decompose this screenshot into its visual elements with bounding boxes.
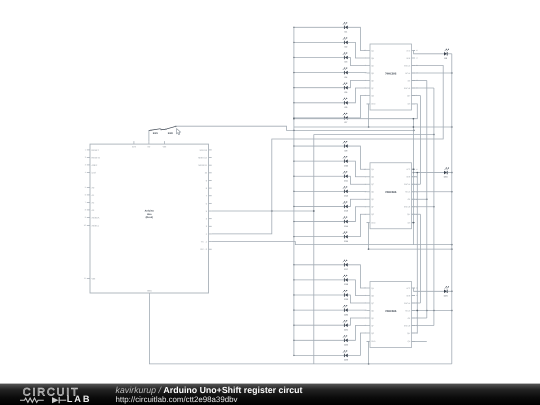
svg-text:QA: QA — [371, 49, 374, 52]
svg-text:QC: QC — [371, 183, 374, 186]
svg-text:3: 3 — [206, 225, 208, 228]
svg-text:D20: D20 — [344, 313, 349, 316]
svg-text:QC: QC — [371, 64, 374, 67]
wire U2 OE row to rail — [412, 191, 452, 193]
svg-text:SER: SER — [406, 57, 411, 60]
Arduino pin SCK/13 — [209, 149, 212, 151]
wire bus to LED D19 — [294, 294, 345, 296]
svg-text:11: 11 — [84, 277, 86, 280]
wire LED D15 to U2 — [348, 214, 367, 236]
wire U1 OE row to rail — [412, 72, 452, 74]
LED D4 — [343, 68, 348, 79]
LED D13 — [343, 202, 349, 213]
svg-text:RCLK: RCLK — [405, 309, 411, 312]
wire LED D17 to U3 — [348, 265, 367, 288]
U3 pin QH — [412, 340, 416, 342]
junction on bus — [293, 117, 294, 118]
svg-text:3V3: 3V3 — [132, 145, 137, 148]
wire U2 GND drop — [367, 223, 369, 249]
svg-text:ioref: ioref — [92, 171, 97, 174]
junction — [413, 222, 415, 224]
svg-text:74HC595: 74HC595 — [385, 72, 397, 75]
svg-text:kavirkurup / Arduino Uno+Shift: kavirkurup / Arduino Uno+Shift register … — [116, 385, 303, 395]
junction on bus — [293, 27, 294, 28]
junction — [433, 206, 435, 208]
Arduino pin TX&#8594;1 — [209, 241, 212, 243]
junction — [368, 363, 370, 365]
junction — [426, 198, 428, 200]
svg-text:QB: QB — [371, 176, 374, 179]
svg-text:QC: QC — [371, 302, 374, 305]
svg-text:SCK/13: SCK/13 — [199, 149, 207, 152]
wire U1 GND-R jog to bus line A1 — [294, 104, 417, 119]
wire bus to LED D3 — [294, 57, 345, 59]
svg-text:VCC: VCC — [406, 168, 411, 171]
U1 pin QD — [367, 72, 371, 74]
junction — [426, 310, 428, 312]
U2 pin SER — [412, 176, 416, 178]
LED D8 — [444, 49, 449, 60]
Arduino pin MOSI/11 — [209, 164, 212, 166]
svg-text:5V: 5V — [148, 145, 151, 148]
U3 pin QA — [367, 287, 371, 289]
wire between switches — [162, 128, 166, 130]
svg-text:5: 5 — [85, 186, 86, 189]
svg-text:QD: QD — [371, 72, 374, 75]
U3 pin VCC — [412, 287, 416, 289]
node LED supply bus (vertical) — [293, 27, 295, 355]
Arduino pin GND — [148, 293, 150, 296]
wire U2 GND-R to v413 — [412, 222, 414, 224]
Arduino pin 10 — [209, 172, 212, 174]
junction on bus — [293, 279, 294, 280]
vertical bus RCLK — [426, 81, 428, 319]
vertical chain QH'U1-SER U2 — [419, 96, 421, 185]
junction — [416, 310, 418, 312]
svg-text:2: 2 — [206, 233, 208, 236]
svg-text:RX←0: RX←0 — [201, 248, 208, 251]
svg-text:A4/SDA: A4/SDA — [92, 216, 100, 219]
wire U2 VCC stub to v413 — [413, 168, 415, 170]
svg-text:RCLK: RCLK — [405, 72, 411, 75]
svg-text:D7: D7 — [345, 121, 349, 124]
U1 pin QH — [412, 103, 416, 105]
svg-text:QH': QH' — [407, 332, 411, 335]
junction on bus — [293, 176, 294, 177]
svg-text:OE: OE — [408, 198, 411, 201]
U3 pin SER — [412, 295, 416, 297]
wire LED to right rail — [447, 290, 451, 292]
U1 pin VCC — [412, 50, 416, 52]
svg-text:A2: A2 — [92, 201, 95, 204]
svg-text:2: 2 — [85, 156, 86, 159]
junction right rail — [451, 290, 453, 292]
svg-text:D2: D2 — [345, 46, 349, 49]
svg-text:10: 10 — [205, 172, 208, 175]
svg-text:16: 16 — [416, 168, 418, 171]
wire bus to LED D20 — [294, 309, 345, 311]
svg-text:QA: QA — [371, 168, 374, 171]
CircuitLab logo — [20, 386, 91, 403]
svg-text:8: 8 — [206, 187, 208, 190]
wire U3 VCC jog to LED row — [414, 288, 444, 291]
U3 pin QG — [367, 332, 371, 334]
junction on bus — [293, 42, 294, 43]
svg-text:D23: D23 — [344, 359, 349, 362]
LED D16 — [444, 168, 449, 179]
svg-text:D11: D11 — [344, 179, 349, 182]
U3 pin QE — [367, 317, 371, 319]
U2 pin QB — [367, 176, 371, 178]
U2 pin QH — [412, 222, 416, 224]
wire latch line over gap1 — [314, 134, 434, 136]
wire U2 pin2 tap to chain — [412, 183, 421, 185]
svg-text:QE: QE — [371, 317, 374, 320]
svg-text:QF: QF — [371, 324, 374, 327]
junction — [451, 191, 453, 193]
Arduino pin ioref — [87, 171, 90, 173]
svg-text:SW1: SW1 — [153, 132, 159, 135]
wire LED D12 to U2 — [348, 190, 367, 192]
wire bus to LED D12 — [294, 190, 345, 192]
svg-text:D4: D4 — [345, 76, 349, 79]
LED D7 — [343, 113, 348, 124]
junction — [451, 248, 453, 250]
junction — [368, 248, 370, 250]
junction on bus — [293, 191, 294, 192]
U3 pin QB — [367, 295, 371, 297]
svg-text:VCC: VCC — [406, 49, 411, 52]
junction — [413, 168, 415, 170]
junction — [413, 130, 415, 132]
svg-text:QF: QF — [371, 87, 374, 90]
wire bus to LED D7 — [294, 117, 345, 119]
U2 pin QG — [367, 213, 371, 215]
svg-text:1: 1 — [85, 149, 86, 152]
svg-text:D3: D3 — [345, 61, 349, 64]
U1 pin SRCLR — [412, 87, 416, 89]
svg-text:QE: QE — [371, 198, 374, 201]
svg-text:A0: A0 — [92, 186, 95, 189]
U2 pin RCLK — [412, 191, 416, 193]
svg-text:D18: D18 — [344, 283, 349, 286]
junction on bus — [293, 264, 294, 265]
Arduino pin 5 — [209, 210, 212, 212]
svg-text:3: 3 — [365, 309, 366, 312]
switch SW2 — [165, 126, 176, 135]
junction — [451, 72, 453, 74]
junction — [451, 244, 453, 246]
Arduino pin A5/SCL — [87, 224, 90, 226]
Arduino pin AREF — [87, 164, 90, 166]
svg-text:QE: QE — [371, 79, 374, 82]
svg-text:QD: QD — [371, 309, 374, 312]
svg-text:QG: QG — [371, 332, 374, 335]
LED D6 — [343, 98, 348, 109]
Arduino pin 3V3 — [133, 141, 135, 144]
wire switch to LED supply bus and v413 — [176, 126, 414, 130]
wire bus to LED D22 — [294, 339, 345, 341]
svg-text:OE: OE — [408, 317, 411, 320]
Arduino pin RESET2 — [87, 156, 90, 158]
Arduino pin 5V — [148, 141, 150, 144]
junction — [433, 310, 435, 312]
vertical chain v417 — [416, 173, 418, 334]
U1 pin QG — [367, 95, 371, 97]
LED D20 — [343, 305, 349, 316]
U2 pin VCC — [412, 168, 416, 170]
junction right rail — [451, 172, 453, 174]
U1 pin OE — [412, 80, 416, 82]
wire Arduino GND down to ground rail — [149, 296, 451, 364]
U2 pin GND — [367, 222, 371, 224]
svg-text:SW2: SW2 — [168, 132, 174, 135]
shift register U2 74HC595 — [370, 163, 412, 229]
wire LED D21 to U3 — [348, 318, 367, 325]
U3 SER stub — [412, 295, 416, 297]
svg-text:GND: GND — [371, 221, 376, 224]
LED D1 — [343, 23, 348, 34]
LED D14 — [343, 217, 349, 228]
svg-text:D21: D21 — [344, 328, 349, 331]
wire 5V pin up to switch — [148, 130, 150, 141]
wire LED D19 to U3 — [348, 295, 367, 303]
U2 pin QC — [367, 183, 371, 185]
Arduino pin 9 — [209, 179, 212, 181]
wire bus to LED D17 — [294, 264, 345, 266]
svg-text:A5/SCL: A5/SCL — [92, 224, 100, 227]
wire bus to LED D13 — [294, 205, 345, 207]
Arduino pin A0 — [87, 186, 90, 188]
svg-text:QH: QH — [407, 340, 410, 343]
junction on bus — [293, 145, 294, 146]
svg-text:QH: QH — [407, 103, 410, 106]
wire bus to LED D21 — [294, 324, 345, 326]
LED D2 — [343, 38, 348, 49]
Arduino pin A2 — [87, 201, 90, 203]
U3 pin GND — [367, 340, 371, 342]
junction on bus — [293, 57, 294, 58]
svg-text:D13: D13 — [344, 210, 349, 213]
svg-text:QG: QG — [371, 213, 374, 216]
wire U1 SRCLK tap — [412, 87, 434, 89]
svg-text:GND: GND — [371, 340, 376, 343]
wire U2 LED row — [413, 172, 444, 174]
LED D24 — [444, 287, 449, 298]
svg-text:QD: QD — [371, 191, 374, 194]
LED D12 — [343, 187, 349, 198]
svg-text:A1: A1 — [92, 194, 95, 197]
svg-text:SRCLR: SRCLR — [404, 324, 411, 327]
U2 pin QF — [367, 206, 371, 208]
svg-text:D8: D8 — [444, 57, 448, 60]
svg-text:SRCLK: SRCLK — [404, 302, 411, 305]
svg-text:QH': QH' — [407, 213, 411, 216]
Arduino pin RX&#8592;0 — [209, 248, 212, 250]
svg-text:5: 5 — [206, 210, 208, 213]
wire LED D22 to U3 — [348, 326, 367, 341]
wire LED D9 to U2 — [348, 146, 367, 169]
junction on bus — [293, 102, 294, 103]
svg-text:6: 6 — [85, 194, 86, 197]
Arduino pin VIN — [87, 277, 90, 279]
wire gap line B1 — [294, 126, 452, 128]
wire U3 RCLK tap — [412, 317, 427, 319]
svg-text:14: 14 — [416, 294, 418, 297]
Arduino pin 8 — [209, 187, 212, 189]
svg-text:4: 4 — [85, 171, 86, 174]
Arduino pin 4 — [209, 218, 212, 220]
junction — [368, 126, 370, 128]
svg-text:16: 16 — [416, 287, 418, 290]
U3 pin QD — [367, 310, 371, 312]
U3 pin QH' — [412, 332, 416, 334]
junction on bus — [293, 160, 294, 161]
junction on bus — [293, 87, 294, 88]
wire LED to right rail — [447, 53, 451, 55]
junction — [413, 172, 415, 174]
svg-text:RESET2: RESET2 — [92, 156, 101, 159]
vertical bus line B (mid) — [313, 135, 315, 364]
junction on bus — [293, 206, 294, 207]
wire bus to LED D6 — [294, 102, 345, 104]
svg-text:D1: D1 — [345, 31, 349, 34]
vertical bus SRCLK — [433, 88, 435, 326]
wire LED D13 to U2 — [348, 199, 367, 206]
svg-text:SER: SER — [406, 294, 411, 297]
svg-text:VIN: VIN — [92, 277, 96, 280]
vertical link v413 gap1 to gap2 — [412, 119, 414, 245]
svg-text:QB: QB — [371, 294, 374, 297]
junction on bus — [293, 294, 294, 295]
vertical right cathode rail — [451, 54, 453, 364]
U1 pin QA — [367, 50, 371, 52]
U2 pin SRCLK — [412, 183, 416, 185]
wire LED D2 to U1 — [348, 42, 367, 58]
wire bus to LED D2 — [294, 41, 345, 43]
svg-text:10: 10 — [84, 224, 86, 227]
junction on bus — [293, 236, 294, 237]
svg-text:QG: QG — [371, 94, 374, 97]
svg-text:9: 9 — [206, 179, 208, 182]
wire LED D4 to U1 — [348, 72, 367, 74]
svg-text:D10: D10 — [344, 164, 349, 167]
svg-text:3: 3 — [85, 164, 86, 167]
U1 pin QF — [367, 87, 371, 89]
svg-text:D22: D22 — [344, 344, 349, 347]
wire LED D14 to U2 — [348, 207, 367, 222]
junction — [413, 126, 415, 128]
junction — [451, 126, 453, 128]
svg-text:8: 8 — [85, 209, 86, 212]
U3 pin QC — [367, 302, 371, 304]
junction on bus — [293, 340, 294, 341]
wire U3 SRCLK tap — [412, 325, 434, 327]
U3 pin SRCLK — [412, 302, 416, 304]
svg-text:GND: GND — [371, 103, 376, 106]
shift register U1 74HC595 — [370, 44, 412, 110]
Arduino pin 3 — [209, 225, 212, 227]
LED D21 — [343, 320, 349, 331]
junction on bus — [293, 309, 294, 310]
Arduino pin A3 — [87, 209, 90, 211]
U2 pin QA — [367, 168, 371, 170]
wire bus to LED D10 — [294, 160, 345, 162]
wire U1 RCLK tap — [412, 80, 427, 82]
junction on bus — [293, 72, 294, 73]
LED D3 — [343, 53, 348, 64]
U1 pin QB — [367, 57, 371, 59]
U1 pin QH' — [412, 95, 416, 97]
svg-text:SRCLR: SRCLR — [404, 206, 411, 209]
svg-text:3: 3 — [365, 190, 366, 193]
svg-text:11: 11 — [416, 64, 418, 67]
junction at bus feed — [293, 130, 295, 132]
U2 pin SRCLR — [412, 206, 416, 208]
svg-text:14: 14 — [416, 57, 418, 60]
svg-text:D15: D15 — [344, 240, 349, 243]
shift register U3 74HC595 — [370, 282, 412, 348]
junction — [433, 134, 435, 136]
svg-text:D5: D5 — [345, 91, 349, 94]
wire U2 QH' tap to chain — [412, 213, 421, 215]
svg-text:MISO/12: MISO/12 — [198, 156, 207, 159]
U2 pin OE — [412, 198, 416, 200]
wire LED D3 to U1 — [348, 58, 367, 66]
svg-text:(Rev3): (Rev3) — [146, 216, 154, 219]
junction on bus — [293, 118, 295, 120]
U1 pin SER — [412, 57, 416, 59]
svg-text:6: 6 — [206, 202, 208, 205]
Arduino Uno module U4 — [90, 144, 209, 293]
junction — [451, 310, 453, 312]
svg-text:OE: OE — [408, 79, 411, 82]
U3 pin QF — [367, 325, 371, 327]
svg-text:D16: D16 — [444, 176, 449, 179]
LED D22 — [343, 336, 349, 347]
junction on bus — [293, 221, 294, 222]
Arduino pin 6 — [209, 202, 212, 204]
svg-text:QH: QH — [407, 221, 410, 224]
wire U1 VCC jog to LED row — [414, 51, 444, 54]
svg-text:SRCLK: SRCLK — [404, 183, 411, 186]
LED D11 — [343, 171, 349, 182]
svg-text:A3: A3 — [92, 209, 95, 212]
svg-text:16: 16 — [416, 49, 418, 52]
switch SW1 — [149, 129, 162, 135]
wire LED D23 to U3 — [348, 333, 367, 355]
mouse cursor icon — [177, 129, 181, 135]
svg-text:http://circuitlab.com/ctt2e98a: http://circuitlab.com/ctt2e98a39dbv — [116, 395, 238, 404]
wire LED D7 to U1 — [348, 96, 367, 118]
Arduino pin RESET — [87, 149, 90, 151]
vertical chain QH'U2-SER U3 — [419, 214, 421, 303]
Arduino pin 2 — [209, 233, 212, 235]
U1 pin SRCLK — [412, 65, 416, 67]
Arduino pin VIN — [163, 141, 165, 144]
wire LED D10 to U2 — [348, 161, 367, 177]
Arduino pin 7 — [209, 195, 212, 197]
Arduino pin A4/SDA — [87, 216, 90, 218]
LED D15 — [343, 232, 349, 243]
svg-text:RCLK: RCLK — [405, 191, 411, 194]
wire U3 QH' tap — [412, 332, 418, 334]
svg-text:SER: SER — [406, 176, 411, 179]
junction — [413, 118, 415, 120]
svg-text:QH': QH' — [407, 94, 411, 97]
svg-text:9: 9 — [85, 216, 86, 219]
svg-text:D24: D24 — [444, 294, 449, 297]
